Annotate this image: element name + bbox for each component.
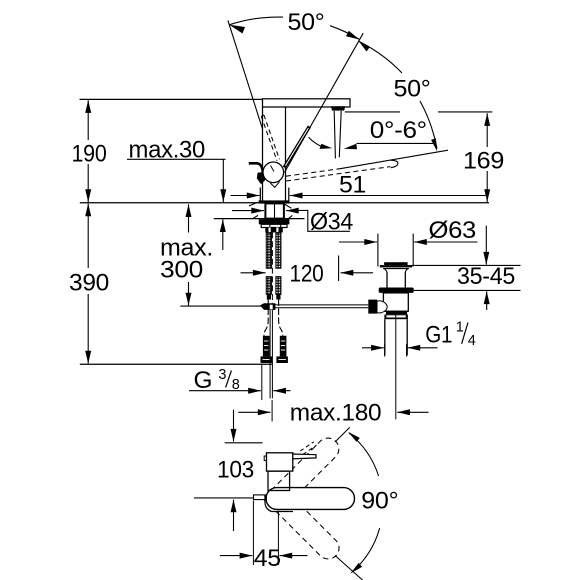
50-degree arc right (segment b, with end arrowhead)	[420, 101, 437, 149]
max.300 end reference line	[180, 305, 260, 307]
G1 1/4 left arrow	[362, 347, 384, 349]
lever radius thin line upper-right	[285, 33, 364, 172]
dimension 51 left arrow	[231, 195, 260, 197]
side view: pull rod knob at left	[254, 495, 267, 500]
radius line beyond upper dashed spout end	[335, 427, 350, 442]
dimension 390 upper arrow (points up to deck)	[87, 204, 89, 269]
radius line beyond lower dashed spout end	[335, 556, 363, 580]
svg-text:390: 390	[69, 270, 109, 297]
faucet body left edge	[262, 107, 264, 201]
tailpipe center line / max180 right extension	[395, 312, 397, 419]
svg-text:3: 3	[218, 367, 226, 383]
water spray line left	[334, 111, 335, 159]
flexible hose right upper segment (braided)	[276, 232, 281, 268]
threaded shank through deck	[265, 203, 284, 218]
spray axis extension line	[338, 256, 340, 282]
svg-text:300: 300	[160, 257, 203, 284]
hose tube left (curved to fitting)	[264, 300, 268, 336]
side view: lever pointing right	[293, 454, 316, 459]
dimension 169 upper arrow	[486, 113, 488, 147]
G3/8 fitting right (black threaded)	[280, 336, 287, 357]
deck bottom line right segment	[285, 218, 305, 220]
0-6 right arrowhead	[344, 144, 357, 149]
svg-text:50°: 50°	[288, 9, 325, 36]
Ø63 left arrow	[339, 241, 377, 243]
horizontal pull rod coupler (black)	[260, 303, 275, 310]
max.180 right arrow	[397, 411, 428, 413]
pop-up waste: flange (dark)	[380, 265, 412, 267]
top extension line (spout top level)	[80, 98, 263, 100]
dimension 51 right arrow with leader to label	[290, 195, 489, 197]
lever handle (solid, up-right)	[284, 127, 309, 168]
hose end tips (black)	[267, 294, 271, 299]
103 lower arrow	[233, 500, 235, 531]
dimension 169 top reference line	[345, 111, 400, 113]
flexible hose left lower segment (braided)	[266, 277, 271, 295]
svg-text:max.180: max.180	[290, 400, 382, 427]
base escutcheon plate (black)	[259, 200, 290, 203]
fraction slash for G1 1/4	[462, 323, 468, 344]
side view: body between cartridge and spout	[268, 471, 290, 490]
pop-up waste: upper barrel	[386, 273, 388, 288]
side view: housing clip left	[264, 456, 266, 461]
max.300 upper arrow (points up to deck)	[188, 204, 190, 232]
svg-text:4: 4	[468, 333, 476, 349]
dashed lever position upper-left (two dashed lines)	[261, 116, 277, 161]
dimension 45 extension lines	[252, 501, 254, 566]
G3/8 left extension line	[261, 364, 263, 400]
G3/8 right arrow	[273, 390, 290, 392]
50-degree arc left (segment a)	[229, 17, 283, 25]
svg-text:90°: 90°	[361, 488, 398, 515]
faucet spout top bar	[263, 99, 351, 107]
svg-text:max.30: max.30	[129, 137, 206, 164]
svg-text:45: 45	[254, 545, 281, 572]
hose connector block (black with slots)	[265, 228, 283, 233]
35-45 lower arrow	[486, 291, 488, 310]
max.180 left extension line	[271, 400, 273, 422]
dimension 390 lower arrow	[87, 294, 89, 364]
horizontal pull rod to waste (double line)	[275, 304, 369, 306]
pop-up waste: rod knob (black)	[368, 300, 377, 314]
dashed lever end cap	[391, 160, 398, 168]
svg-text:51: 51	[339, 171, 366, 198]
45 right arrow	[280, 555, 308, 557]
pop-up waste: lower body	[383, 293, 408, 311]
pop-up waste: rod entry cutout	[377, 301, 387, 313]
body base outer edge left (51 extension)	[259, 188, 261, 203]
dashed lever lowest position lower line	[286, 167, 391, 181]
side view: dashed spout position down-right (rotated +45)	[263, 483, 343, 563]
svg-text:0°-6°: 0°-6°	[370, 117, 427, 144]
thin line continuation to the right (lever low radius)	[340, 150, 448, 169]
svg-text:1: 1	[456, 320, 464, 336]
dimension 190 vertical line upper arrow	[87, 100, 89, 140]
G1 1/4 extension lines	[384, 344, 386, 357]
dimension 103 bottom reference line (spout axis)	[194, 497, 254, 499]
side view: cartridge housing box	[267, 453, 293, 471]
dimension 103 top reference line	[225, 442, 263, 444]
Ø34 leader corner and underline	[300, 210, 351, 231]
deck hole hatch tick bottom-left	[253, 215, 258, 218]
svg-text:50°: 50°	[394, 75, 431, 102]
counter/deck top line	[80, 202, 489, 204]
pop-up waste: tailpipe	[384, 319, 386, 355]
body base outer edge right (51 extension)	[288, 188, 290, 203]
svg-text:120: 120	[290, 260, 324, 287]
pop-up pull-rod hook knob	[249, 163, 263, 172]
pop-up waste: neck taper	[384, 269, 387, 273]
side view: lower shell edge	[265, 495, 293, 512]
pop-up waste: plug top (dark)	[384, 262, 408, 265]
90-degree arc (gap behind label)	[349, 433, 379, 476]
svg-text:35-45: 35-45	[457, 263, 515, 290]
dashed lever lowest position upper line	[286, 169, 340, 177]
45 left arrow	[220, 555, 252, 557]
max.180 left arrow	[238, 411, 270, 413]
0-6 left arrow with curved tail	[309, 137, 321, 146]
max.30 arrow up to deck underside	[222, 219, 224, 250]
50-degree arc left (segment b)	[330, 26, 360, 40]
water spray line right	[339, 111, 341, 157]
deck bottom line left segment	[214, 218, 265, 220]
svg-text:G1: G1	[425, 321, 452, 348]
Ø63 right arrow with leader under label	[414, 241, 477, 243]
dimension 120 right arrow	[341, 272, 374, 274]
vertical pull rod below coupler (double line)	[269, 310, 271, 399]
dimension 35-45 bottom reference line	[414, 289, 521, 291]
103 upper arrow	[233, 410, 235, 442]
deck hole hatch tick top-right	[284, 204, 292, 208]
pop-up waste: bottom band (black with slot)	[386, 311, 407, 314]
locknut tier 2	[261, 224, 287, 227]
dimension 190 vertical line lower arrow	[87, 164, 89, 202]
dimension 35-45 top reference line	[412, 264, 521, 266]
svg-text:8: 8	[232, 377, 240, 393]
svg-text:Ø63: Ø63	[429, 217, 477, 244]
hose tube right (curved to fitting)	[279, 300, 283, 336]
flexible hose right lower segment (braided)	[276, 277, 281, 295]
35-45 upper arrow	[485, 226, 487, 265]
max.30 arrow down to deck	[222, 159, 224, 202]
90-degree arc arrowheads	[348, 432, 360, 442]
aerator outlet (black)	[331, 106, 345, 110]
flexible hose left upper segment (braided)	[266, 232, 271, 268]
locknut tier 1 (black)	[259, 219, 290, 224]
deck hole hatch tick top-left	[249, 202, 258, 206]
deck hole hatch tick bottom-right	[287, 215, 292, 219]
small dash through circle	[271, 166, 275, 172]
svg-text:103: 103	[217, 457, 254, 484]
center pull rod upper line	[271, 232, 273, 303]
pop-up waste: deck ring (black)	[379, 288, 414, 293]
side view: spout (solid pill, masks dashes)	[266, 488, 355, 510]
svg-text:G: G	[194, 367, 213, 394]
fraction slash for G 3/8	[226, 371, 232, 388]
pull-rod hook foot	[257, 172, 265, 184]
Ø63 extension lines	[377, 234, 379, 267]
pop-up waste: flange underside	[383, 268, 409, 270]
lever radius thin line upper-left	[228, 20, 263, 129]
dimension 169 lower arrow	[486, 171, 488, 202]
cartridge circle	[263, 162, 284, 183]
G1 1/4 right arrow	[408, 347, 438, 349]
svg-text:169: 169	[463, 147, 504, 174]
faucet body right edge	[285, 107, 287, 201]
Ø34 left arrow	[232, 210, 264, 212]
svg-text:Ø34: Ø34	[310, 209, 353, 236]
50-degree arc right (segment a)	[359, 41, 402, 73]
shank center line	[274, 203, 276, 218]
arc left arrowheads	[229, 25, 245, 34]
dashed lever tip outline below circle	[270, 182, 279, 188]
lower reference line (end of hoses, 390)	[80, 363, 273, 365]
side view: dashed spout position up-right (rotated -45)	[263, 434, 343, 514]
0-6 degree underline	[357, 142, 434, 144]
side view: dashed lever rotated 45 deg	[300, 442, 314, 451]
max.30 underline	[127, 158, 226, 160]
G3/8 underline and left arrow	[189, 390, 248, 392]
dimension 120 arrow	[241, 272, 266, 274]
G3/8 fitting left (black threaded)	[263, 336, 270, 357]
Ø34 right arrow	[286, 210, 300, 212]
max.300 lower arrow	[188, 282, 190, 305]
svg-text:190: 190	[72, 140, 107, 167]
